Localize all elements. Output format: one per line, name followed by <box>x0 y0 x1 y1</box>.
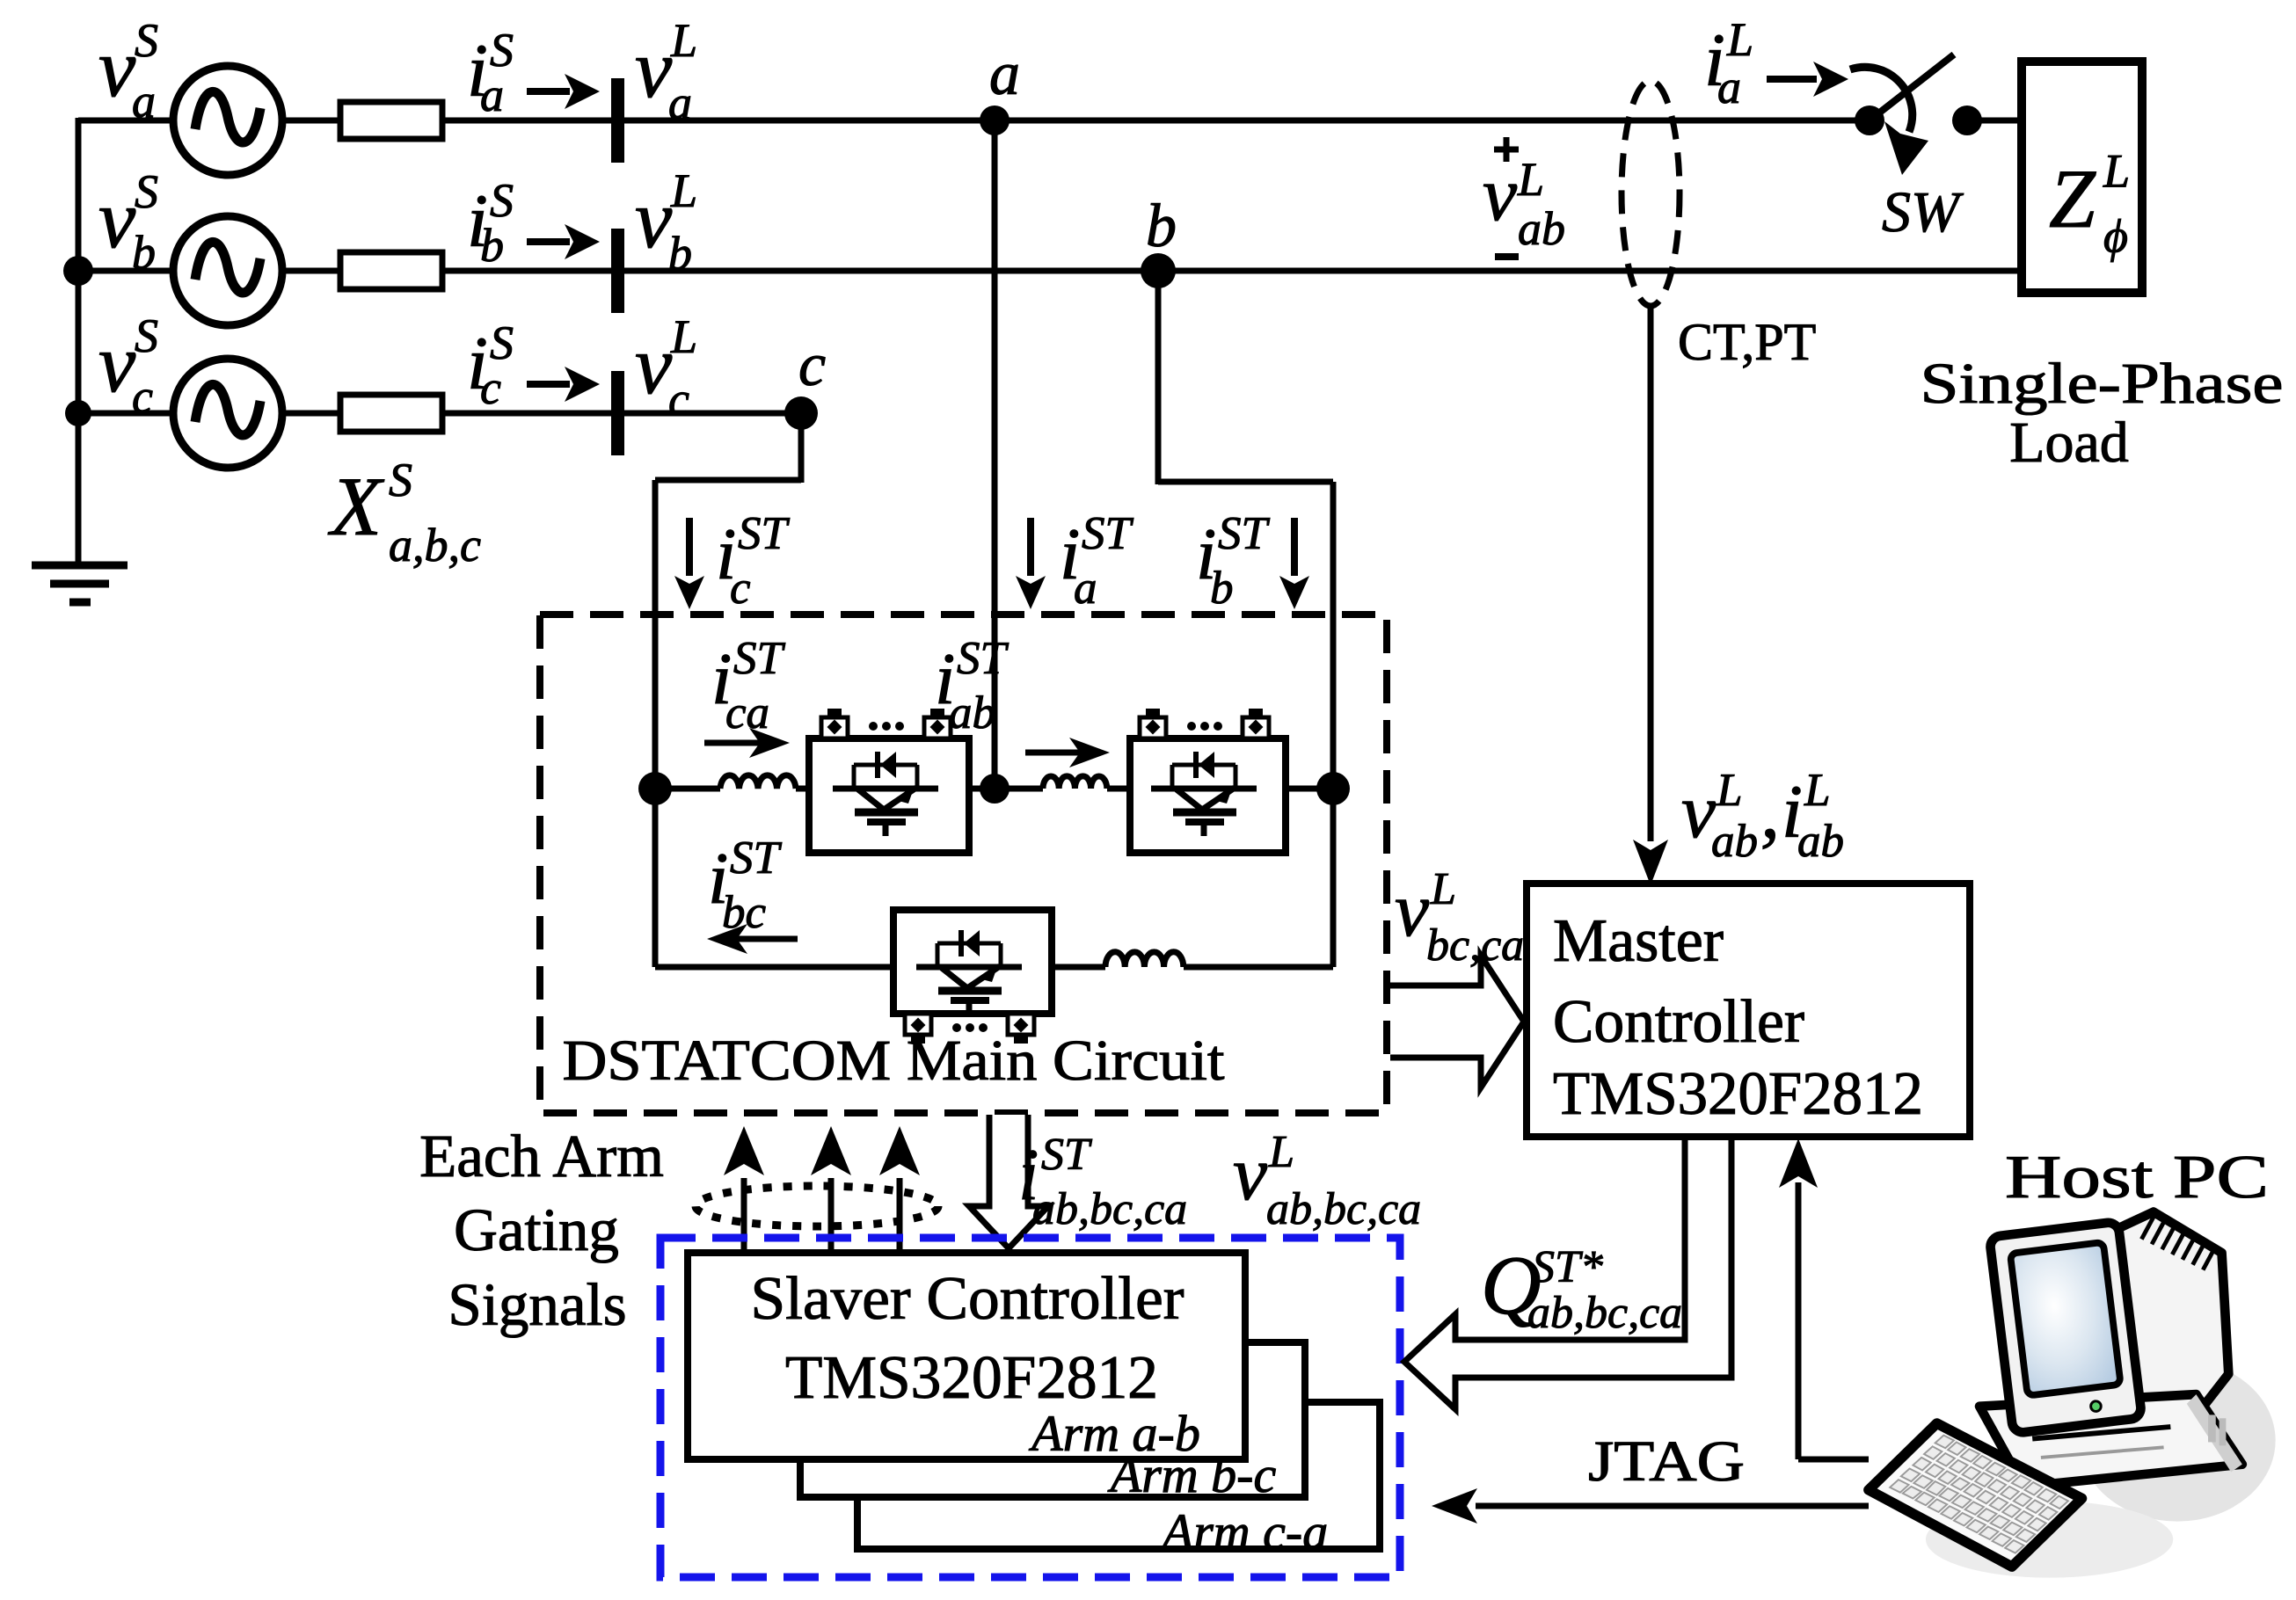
svg-text:ab,bc,ca: ab,bc,ca <box>1266 1184 1421 1234</box>
svg-text:S: S <box>135 14 158 67</box>
svg-text:ϕ: ϕ <box>2103 210 2128 263</box>
svg-text:L: L <box>1430 864 1456 914</box>
svg-text:ca: ca <box>725 687 769 738</box>
svg-text:L: L <box>1517 153 1544 206</box>
svg-text:Slaver Controller: Slaver Controller <box>751 1265 1184 1333</box>
svg-text:v: v <box>635 172 673 265</box>
svg-text:Gating: Gating <box>454 1196 619 1263</box>
svg-text:v: v <box>98 172 136 265</box>
svg-text:c: c <box>668 373 689 425</box>
svg-text:b: b <box>1146 193 1177 260</box>
svg-text:v: v <box>98 21 136 114</box>
svg-text:ST: ST <box>957 633 1010 684</box>
svg-text:a: a <box>132 75 156 127</box>
svg-text:ST*: ST* <box>1532 1242 1603 1292</box>
svg-text:a: a <box>668 76 692 129</box>
svg-text:b: b <box>132 226 156 279</box>
svg-text:ab: ab <box>949 687 995 738</box>
svg-text:Single-Phase: Single-Phase <box>1921 352 2284 416</box>
svg-text:ab: ab <box>1711 816 1758 867</box>
svg-text:b: b <box>480 219 504 272</box>
svg-text:v: v <box>635 22 673 115</box>
svg-text:Arm b-c: Arm b-c <box>1107 1446 1277 1503</box>
svg-text:Arm c-a: Arm c-a <box>1159 1503 1328 1560</box>
svg-text:S: S <box>389 454 412 506</box>
svg-text:b: b <box>668 227 692 280</box>
svg-text:Z: Z <box>2049 152 2096 245</box>
svg-text:Master: Master <box>1553 907 1724 975</box>
svg-text:Load: Load <box>2009 411 2129 475</box>
svg-text:c: c <box>480 361 501 414</box>
svg-text:v: v <box>1233 1131 1268 1217</box>
svg-text:ST: ST <box>1041 1130 1092 1180</box>
svg-text:L: L <box>1804 765 1830 816</box>
svg-text:ST: ST <box>1082 508 1134 559</box>
svg-text:bc,ca: bc,ca <box>1426 920 1524 971</box>
svg-text:L: L <box>1726 13 1753 66</box>
svg-text:Host PC: Host PC <box>2005 1144 2269 1211</box>
svg-text:DSTATCOM Main Circuit: DSTATCOM Main Circuit <box>563 1029 1225 1093</box>
svg-text:ST: ST <box>1218 508 1271 559</box>
svg-text:c: c <box>132 370 153 423</box>
svg-text:L: L <box>1716 765 1742 816</box>
svg-text:JTAG: JTAG <box>1588 1429 1745 1494</box>
svg-text:v: v <box>1395 868 1430 953</box>
svg-text:L: L <box>670 164 697 217</box>
svg-text:a: a <box>1717 61 1741 113</box>
svg-text:S: S <box>135 165 158 218</box>
svg-text:SW: SW <box>1882 180 1964 244</box>
svg-text:a,b,c: a,b,c <box>389 519 481 571</box>
svg-text:bc: bc <box>722 887 766 938</box>
svg-text:ST: ST <box>733 633 786 684</box>
svg-text:v: v <box>98 316 136 410</box>
svg-text:,: , <box>1760 769 1780 855</box>
svg-text:Signals: Signals <box>448 1271 626 1338</box>
svg-text:L: L <box>670 14 697 67</box>
svg-text:v: v <box>1483 152 1518 237</box>
svg-text:ST: ST <box>730 833 783 884</box>
svg-text:b: b <box>1210 563 1234 614</box>
svg-text:L: L <box>670 310 697 363</box>
svg-text:X: X <box>327 460 385 553</box>
svg-text:TMS320F2812: TMS320F2812 <box>1553 1060 1923 1128</box>
svg-text:ab: ab <box>1797 816 1844 867</box>
svg-text:ab,bc,ca: ab,bc,ca <box>1032 1184 1187 1234</box>
svg-text:L: L <box>1268 1127 1294 1177</box>
svg-text:a: a <box>480 69 504 121</box>
svg-text:a: a <box>1074 563 1097 614</box>
svg-text:Controller: Controller <box>1553 988 1804 1056</box>
svg-text:Each Arm: Each Arm <box>419 1123 664 1189</box>
svg-text:S: S <box>135 309 158 362</box>
svg-text:c: c <box>798 331 826 399</box>
svg-text:v: v <box>635 318 673 411</box>
svg-text:CT,PT: CT,PT <box>1678 313 1816 371</box>
svg-text:ST: ST <box>738 508 791 559</box>
svg-text:c: c <box>730 563 751 614</box>
svg-text:a: a <box>989 40 1020 108</box>
svg-text:ab: ab <box>1518 202 1565 255</box>
svg-text:ab,bc,ca: ab,bc,ca <box>1527 1288 1682 1338</box>
svg-text:L: L <box>2103 144 2130 197</box>
svg-text:TMS320F2812: TMS320F2812 <box>785 1344 1158 1412</box>
